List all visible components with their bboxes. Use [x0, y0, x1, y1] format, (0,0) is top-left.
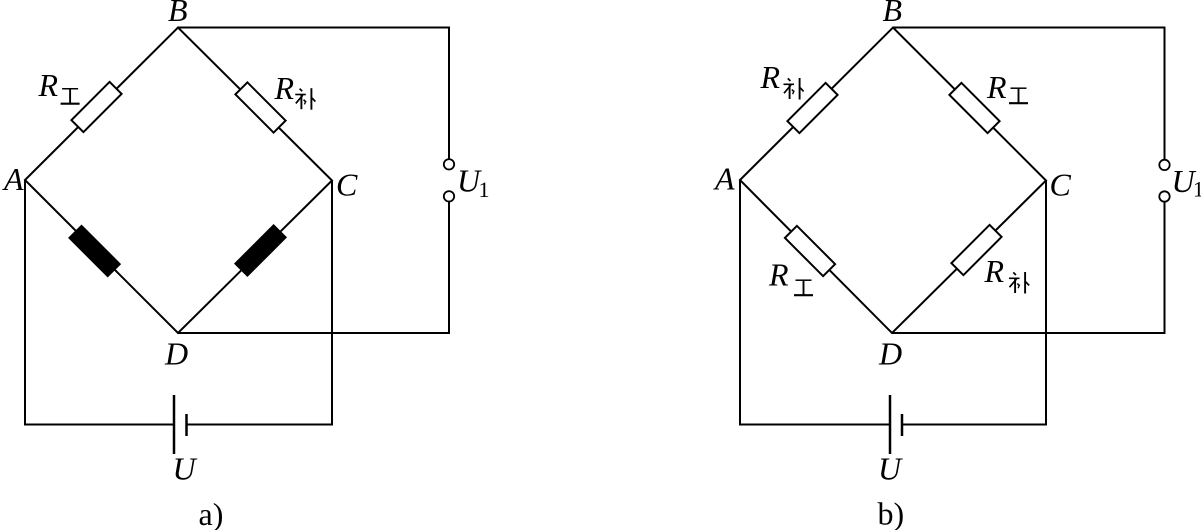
wire bridge diamond A-B-C-D (circuit b) — [740, 28, 1046, 334]
svg-text:a): a) — [199, 496, 224, 530]
svg-text:B: B — [883, 0, 903, 28]
label R工 (circuit b top-right) — [986, 69, 1028, 105]
wire B to upper terminal U1 (circuit b) — [893, 28, 1165, 160]
label R工 (circuit a) — [38, 67, 80, 104]
svg-text:1: 1 — [1193, 177, 1201, 202]
resistor R工 body (circuit b, arm A-D) — [785, 226, 835, 276]
label U1 terminals (circuit a) — [457, 162, 490, 202]
svg-text:D: D — [164, 336, 188, 372]
strain gauge filled resistor body (circuit a, arm D-C) — [235, 225, 287, 277]
label R补 (circuit a) — [274, 70, 316, 110]
svg-text:U: U — [173, 451, 198, 487]
wire C down to bottom rail (circuit b) — [902, 181, 1046, 425]
svg-text:R: R — [986, 69, 1007, 105]
svg-text:R: R — [760, 59, 781, 95]
strain gauge filled resistor body (circuit a, arm A-D) — [69, 225, 121, 277]
resistor R补 body (circuit b, arm D-C) — [951, 225, 1001, 275]
wire D to lower terminal U1 (circuit a) — [178, 202, 449, 333]
battery U plates (circuit a) — [174, 395, 187, 454]
battery U plates (circuit b) — [890, 395, 902, 454]
wire C down to bottom rail (circuit a) — [187, 181, 333, 425]
terminal lower circle U1 (circuit b) — [1159, 191, 1169, 201]
wire bridge diamond A-B-C-D (circuit a) — [25, 28, 332, 334]
svg-text:C: C — [1050, 167, 1072, 203]
wire B to upper terminal U1 (circuit a) — [178, 28, 449, 159]
svg-text:R: R — [274, 70, 295, 106]
label R补 (circuit b bottom-right) — [984, 253, 1030, 294]
label R补 (circuit b top-left) — [760, 59, 804, 100]
svg-text:B: B — [168, 0, 188, 28]
svg-text:1: 1 — [479, 177, 490, 202]
svg-text:b): b) — [878, 496, 905, 530]
wire D to lower terminal U1 (circuit b) — [892, 202, 1165, 334]
svg-text:U: U — [878, 451, 903, 487]
resistor R补 body (circuit a, arm B-C) — [235, 82, 285, 132]
label U1 terminals (circuit b) — [1172, 163, 1201, 202]
svg-text:A: A — [713, 161, 735, 197]
resistor R工 body (circuit b, arm B-C) — [949, 83, 999, 133]
terminal upper circle U1 (circuit a) — [444, 159, 454, 169]
resistor R补 body (circuit b, arm A-B) — [787, 83, 837, 133]
svg-text:D: D — [878, 336, 902, 372]
svg-text:R: R — [984, 253, 1005, 289]
svg-text:C: C — [336, 167, 358, 203]
terminal lower circle U1 (circuit a) — [444, 191, 454, 201]
svg-text:A: A — [2, 161, 24, 197]
svg-text:R: R — [768, 257, 789, 293]
label R工 (circuit b bottom-left) — [768, 257, 813, 296]
wire A down to bottom rail and battery (circuit a) — [25, 180, 174, 425]
terminal upper circle U1 (circuit b) — [1159, 160, 1169, 170]
svg-text:R: R — [38, 67, 59, 103]
resistor R工 body (circuit a, arm A-B) — [71, 82, 121, 132]
wire A down to bottom rail and battery (circuit b) — [740, 180, 890, 425]
